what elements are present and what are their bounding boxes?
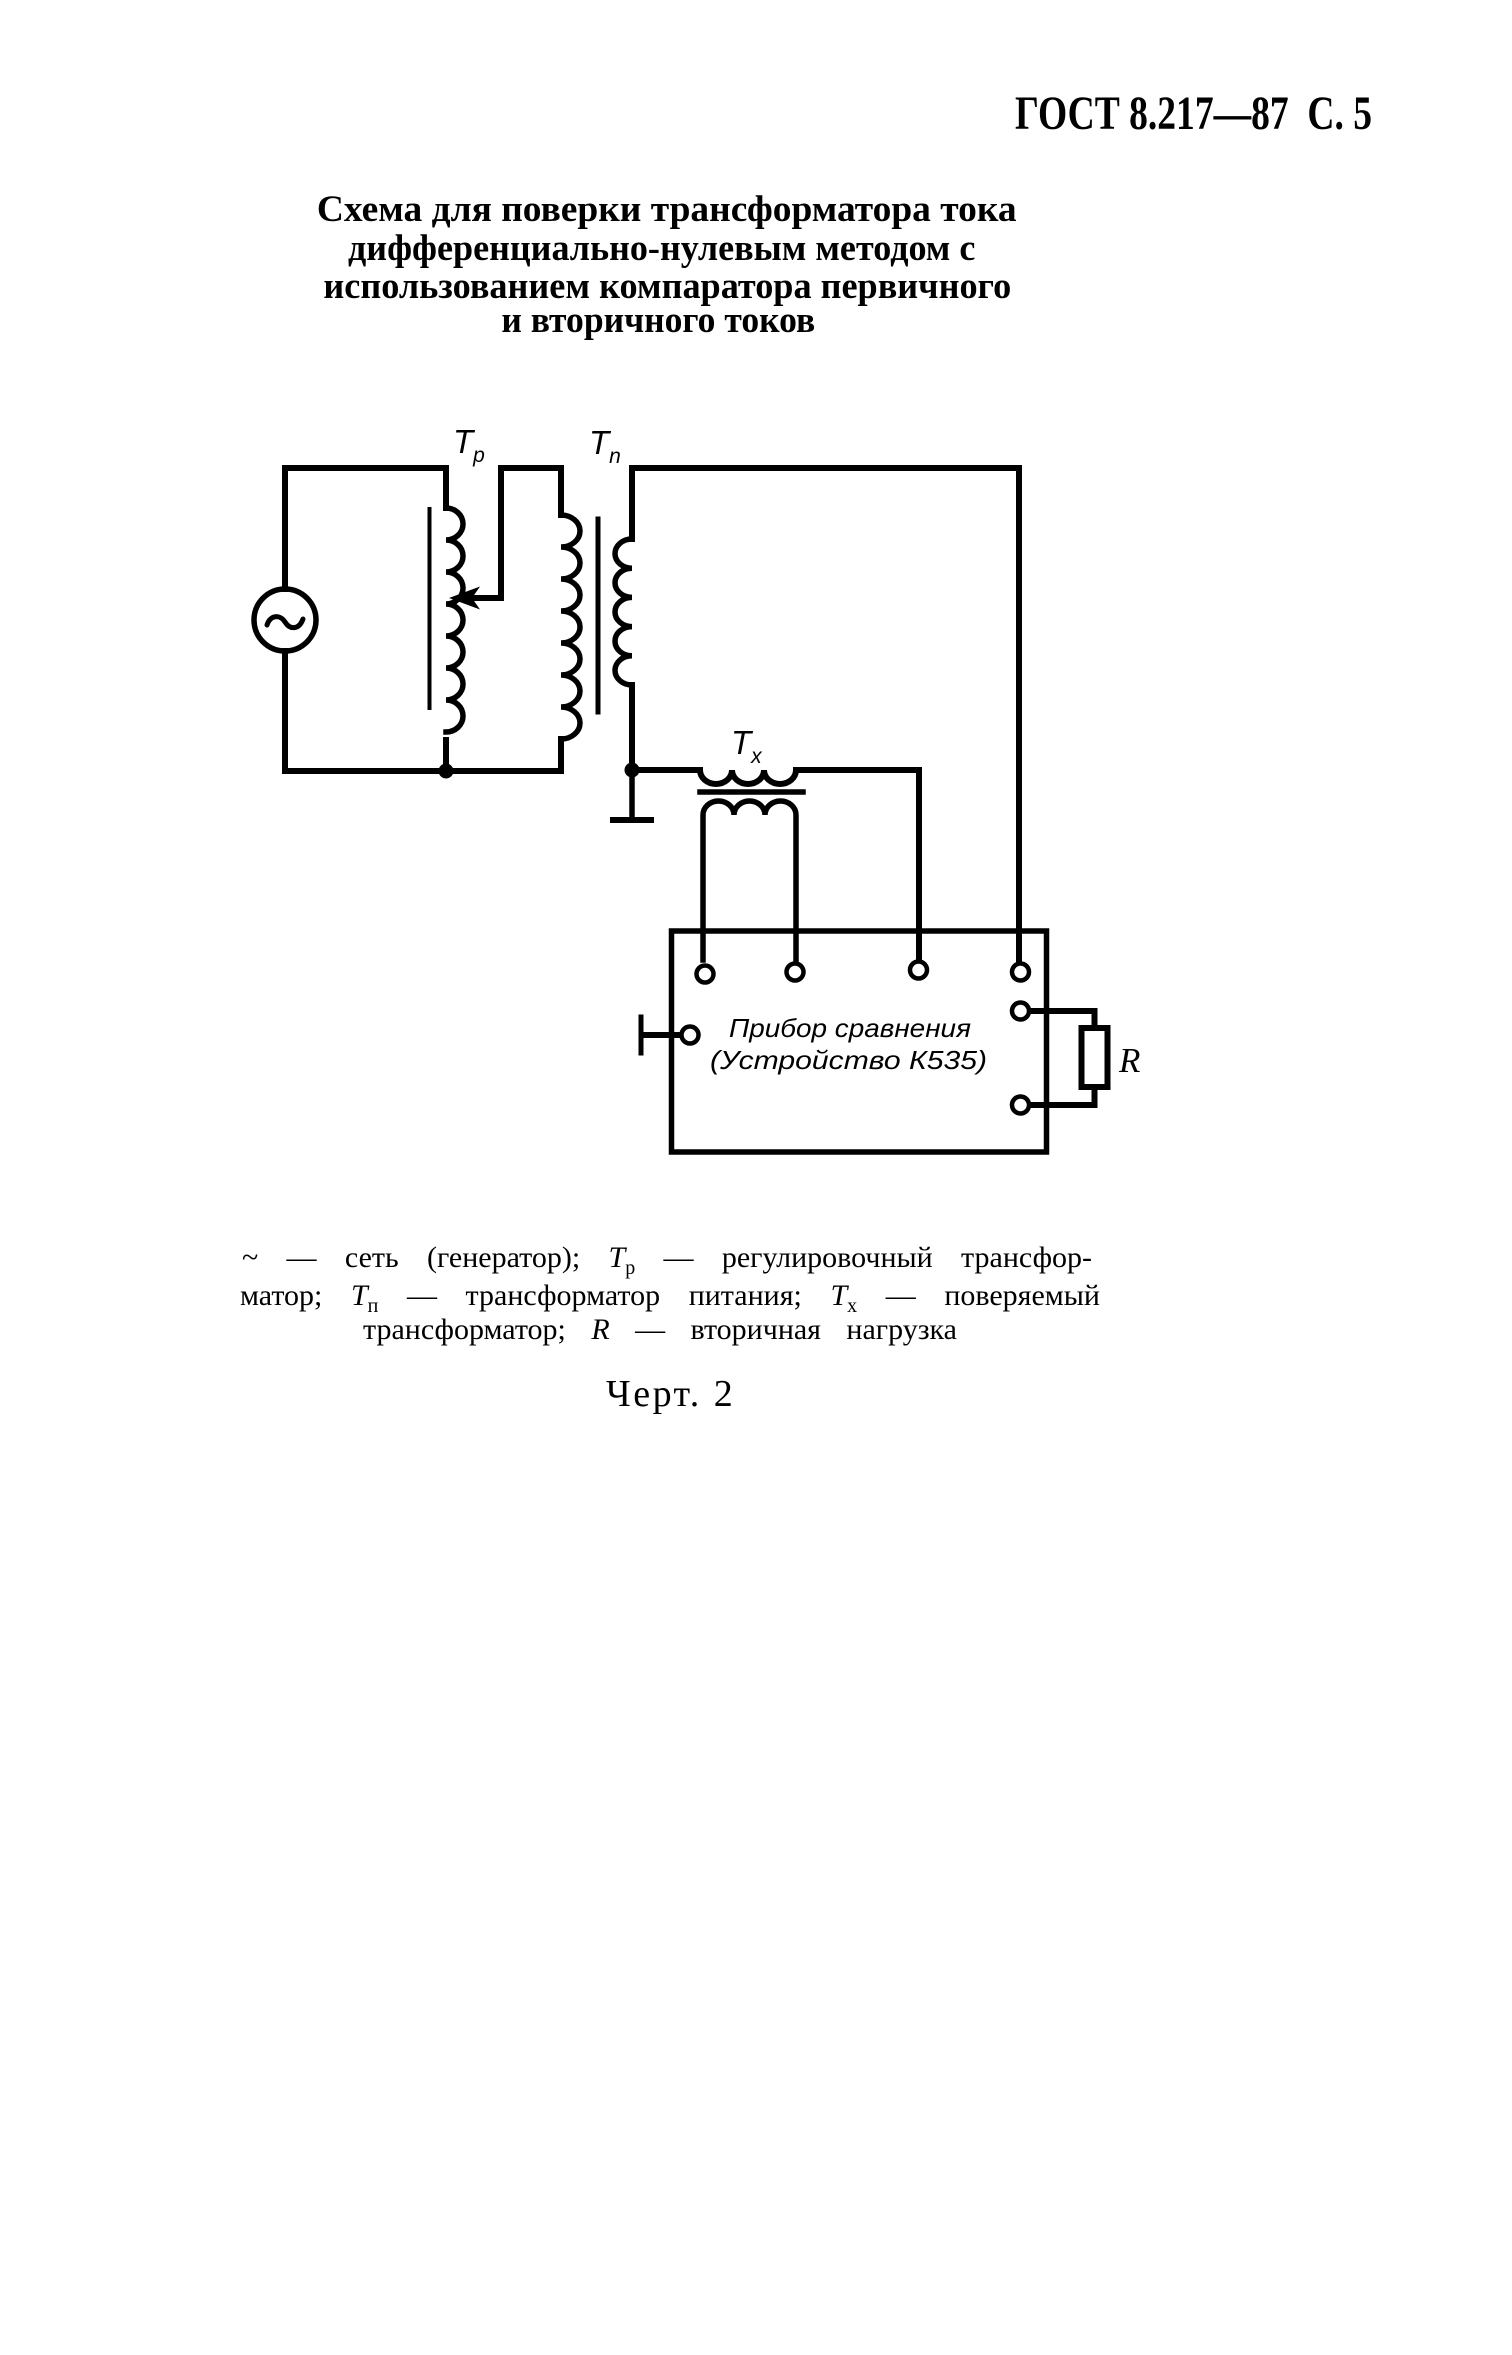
ground bar bbox=[613, 817, 651, 823]
wire bottom (source to Tn primary) bbox=[285, 768, 561, 774]
terminal 1 bbox=[697, 966, 714, 983]
transformer Tn secondary winding bbox=[615, 539, 632, 685]
Tp wiper arrowhead bbox=[449, 587, 480, 610]
figure title bbox=[300, 191, 1034, 340]
transformer Tx primary winding with leads bbox=[632, 770, 919, 960]
transformer Tx core bar bbox=[700, 789, 803, 795]
comparator box U1 (device K535) bbox=[672, 931, 1047, 1152]
ac source generator G bbox=[254, 589, 316, 651]
wire top middle segment (wiper to Tn primary) bbox=[501, 465, 561, 471]
transformer Tx secondary winding with leads bbox=[703, 801, 796, 960]
ground terminal circle bbox=[682, 1027, 699, 1044]
transformer Tn core bar bbox=[596, 519, 601, 712]
autotransformer Tp top lead wire bbox=[443, 468, 449, 508]
ground lead wire bbox=[629, 770, 635, 818]
wire top-left segment (source to Tp) bbox=[285, 468, 446, 589]
ground terminal bar (left of box) bbox=[639, 1017, 644, 1053]
page header GOST number bbox=[1015, 86, 1472, 141]
legend line 2 bbox=[240, 1279, 1100, 1318]
ac source tilde symbol bbox=[267, 617, 303, 628]
transformer Tn primary bottom lead bbox=[558, 739, 564, 771]
terminal 3 bbox=[910, 962, 927, 979]
wire resistor R bottom to terminal 6 bbox=[1030, 1089, 1095, 1105]
junction dot (Tn secondary / Tx primary / ground) bbox=[625, 763, 640, 778]
autotransformer Tp bottom lead wire bbox=[443, 740, 449, 771]
junction dot (Tp bottom / bottom wire) bbox=[439, 764, 454, 779]
terminal 2 bbox=[787, 964, 804, 981]
svg-text:Tn: Tn bbox=[589, 424, 621, 468]
wire terminal 5 to resistor R top bbox=[1030, 1011, 1095, 1026]
ground terminal wire bbox=[643, 1032, 679, 1038]
svg-text:(Устройство К535): (Устройство К535) bbox=[710, 1045, 987, 1075]
svg-text:Tp: Tp bbox=[453, 423, 485, 467]
figure caption bbox=[606, 1372, 735, 1416]
terminal 4 bbox=[1012, 964, 1029, 981]
Tn secondary bottom lead bbox=[629, 685, 635, 770]
wire top right (Tn secondary to comparator terminal 4) bbox=[632, 468, 1019, 960]
resistor R body bbox=[1082, 1028, 1108, 1087]
svg-text:Tx: Tx bbox=[731, 724, 763, 768]
legend line 1 bbox=[242, 1241, 1092, 1280]
terminal 6 (right bottom) bbox=[1012, 1097, 1029, 1114]
transformer Tn primary winding bbox=[561, 515, 580, 739]
svg-text:Прибор сравнения: Прибор сравнения bbox=[729, 1013, 971, 1043]
wire left vertical lower bbox=[282, 651, 288, 771]
autotransformer Tp winding bbox=[446, 508, 463, 732]
terminal 5 (right top) bbox=[1012, 1003, 1029, 1020]
Tp wiper wire bbox=[468, 468, 501, 598]
legend line 3 bbox=[363, 1313, 957, 1347]
autotransformer Tp core bar bbox=[428, 509, 432, 708]
svg-text:R: R bbox=[1118, 1041, 1140, 1080]
transformer Tn primary top lead bbox=[558, 468, 564, 515]
